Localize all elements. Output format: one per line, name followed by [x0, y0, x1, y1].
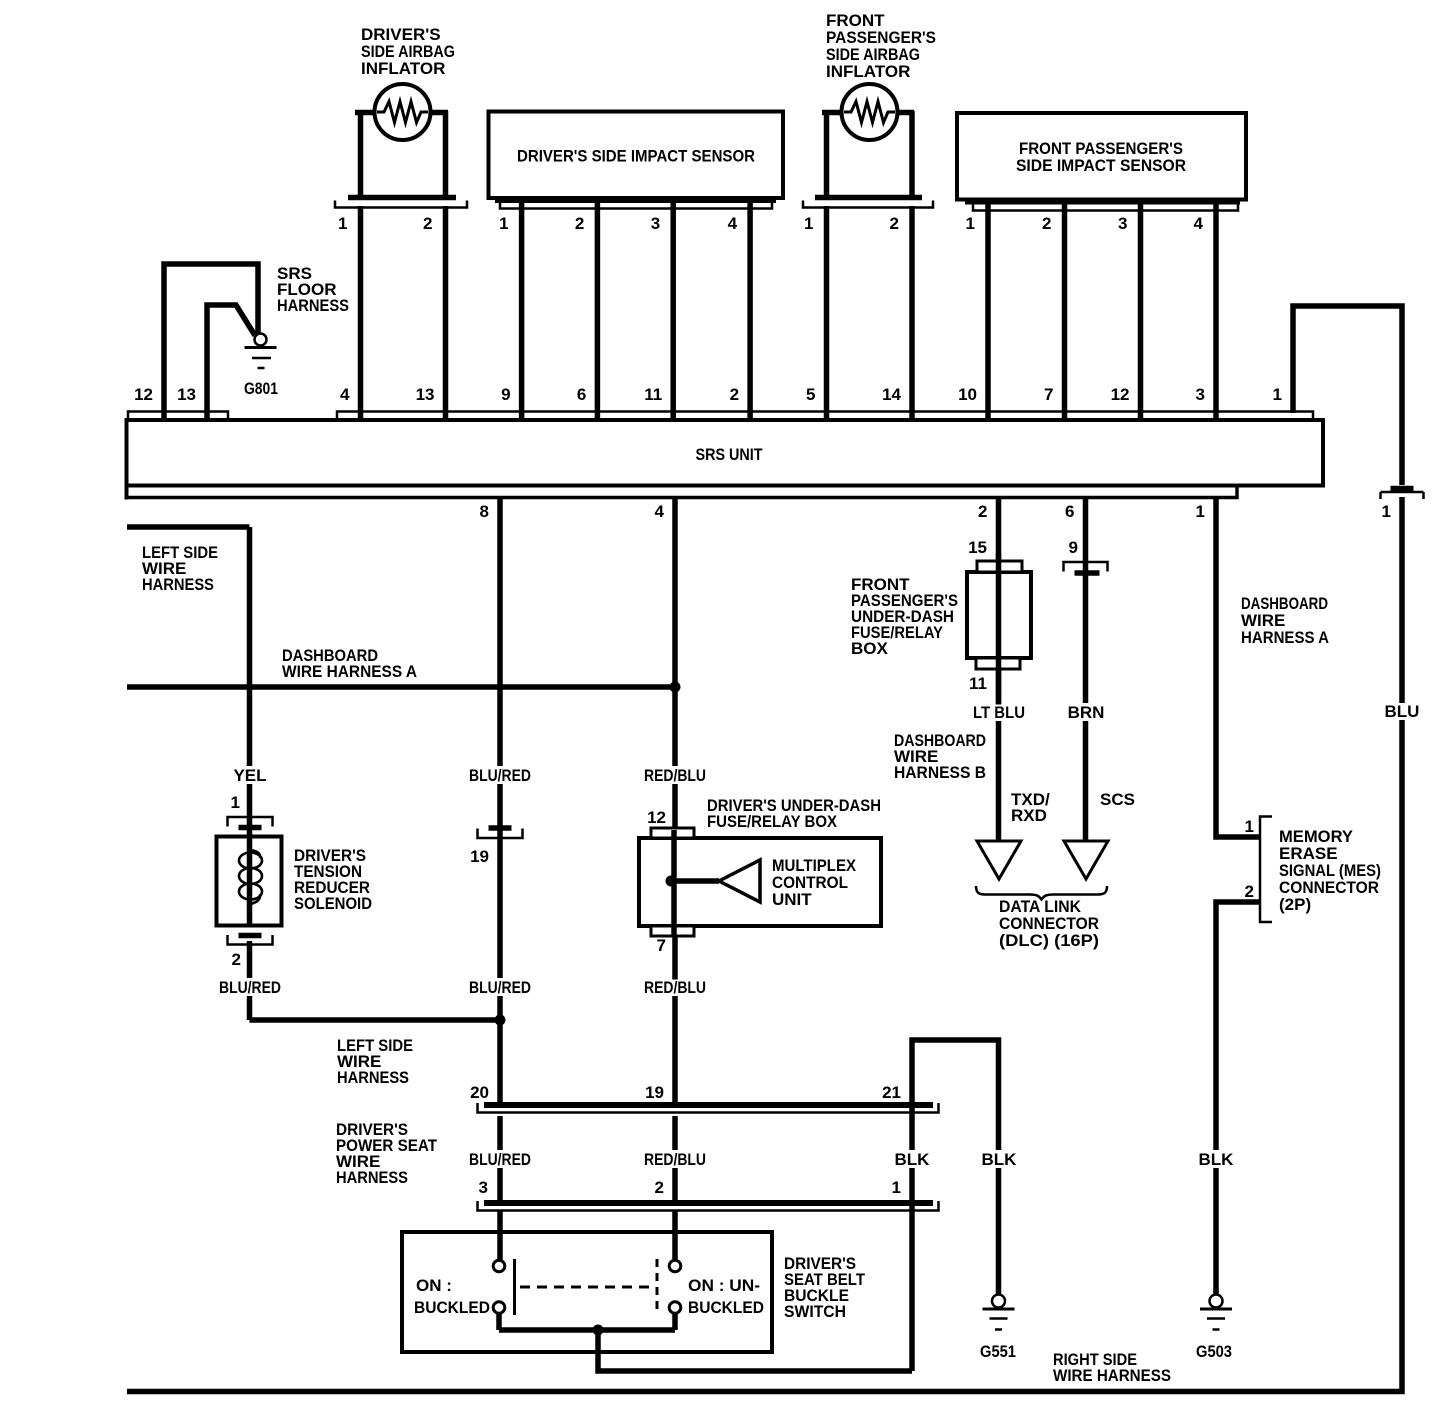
svg-text:2: 2 [730, 385, 739, 404]
svg-text:UNIT: UNIT [772, 890, 812, 909]
svg-text:2: 2 [423, 214, 432, 233]
svg-text:INFLATOR: INFLATOR [826, 62, 910, 81]
svg-text:6: 6 [1065, 502, 1074, 521]
svg-text:1: 1 [966, 214, 975, 233]
svg-text:BLK: BLK [1199, 1150, 1235, 1169]
svg-text:BUCKLED: BUCKLED [688, 1298, 764, 1317]
svg-text:FUSE/RELAY BOX: FUSE/RELAY BOX [707, 812, 838, 831]
svg-text:8: 8 [480, 502, 489, 521]
svg-text:BLU/RED: BLU/RED [469, 1150, 531, 1169]
svg-text:G503: G503 [1196, 1342, 1232, 1361]
svg-text:2: 2 [1245, 882, 1254, 901]
svg-text:2: 2 [890, 214, 899, 233]
svg-text:HARNESS: HARNESS [337, 1068, 409, 1087]
svg-text:BOX: BOX [851, 639, 889, 658]
svg-text:BLK: BLK [982, 1150, 1018, 1169]
svg-text:2: 2 [575, 214, 584, 233]
svg-text:21: 21 [882, 1083, 901, 1102]
svg-text:1: 1 [231, 793, 240, 812]
svg-text:G551: G551 [980, 1342, 1016, 1361]
svg-text:1: 1 [1273, 385, 1282, 404]
svg-text:RED/BLU: RED/BLU [644, 1150, 706, 1169]
svg-text:SCS: SCS [1100, 790, 1135, 809]
svg-text:1: 1 [1196, 502, 1205, 521]
svg-text:BRN: BRN [1068, 703, 1105, 722]
svg-text:20: 20 [470, 1083, 489, 1102]
svg-text:4: 4 [655, 502, 665, 521]
svg-text:9: 9 [1069, 538, 1078, 557]
svg-text:10: 10 [958, 385, 977, 404]
svg-text:WIRE HARNESS A: WIRE HARNESS A [282, 662, 417, 681]
svg-text:YEL: YEL [233, 766, 266, 785]
svg-text:BLU/RED: BLU/RED [469, 766, 531, 785]
svg-text:BUCKLED: BUCKLED [414, 1298, 490, 1317]
svg-text:1: 1 [1245, 817, 1254, 836]
svg-text:HARNESS: HARNESS [277, 296, 349, 315]
svg-text:1: 1 [804, 214, 813, 233]
svg-text:7: 7 [657, 936, 666, 955]
svg-text:11: 11 [969, 674, 987, 693]
svg-text:(DLC) (16P): (DLC) (16P) [999, 931, 1099, 950]
svg-text:DRIVER'S SIDE IMPACT SENSOR: DRIVER'S SIDE IMPACT SENSOR [517, 147, 755, 166]
svg-text:4: 4 [728, 214, 738, 233]
svg-text:WIRE HARNESS: WIRE HARNESS [1053, 1366, 1171, 1385]
svg-text:HARNESS: HARNESS [336, 1168, 408, 1187]
svg-text:19: 19 [470, 847, 489, 866]
svg-text:LT BLU: LT BLU [973, 703, 1025, 722]
svg-text:BLU: BLU [1385, 702, 1420, 721]
svg-text:1: 1 [499, 214, 508, 233]
svg-text:2: 2 [655, 1178, 664, 1197]
svg-text:SRS UNIT: SRS UNIT [696, 445, 764, 464]
svg-text:12: 12 [134, 385, 153, 404]
svg-text:HARNESS A: HARNESS A [1241, 628, 1329, 647]
svg-text:SIDE IMPACT SENSOR: SIDE IMPACT SENSOR [1016, 156, 1186, 175]
svg-text:1: 1 [892, 1178, 901, 1197]
svg-text:(2P): (2P) [1279, 895, 1311, 914]
svg-text:INFLATOR: INFLATOR [361, 59, 445, 78]
svg-text:13: 13 [416, 385, 435, 404]
svg-text:HARNESS B: HARNESS B [894, 763, 986, 782]
svg-text:11: 11 [644, 385, 662, 404]
svg-text:RED/BLU: RED/BLU [644, 766, 706, 785]
svg-text:12: 12 [1111, 385, 1130, 404]
svg-text:13: 13 [177, 385, 196, 404]
svg-text:RXD: RXD [1011, 806, 1047, 825]
svg-text:5: 5 [806, 385, 815, 404]
svg-text:ON : UN-: ON : UN- [688, 1276, 760, 1295]
svg-text:4: 4 [340, 385, 350, 404]
svg-text:15: 15 [968, 538, 987, 557]
svg-text:2: 2 [1042, 214, 1051, 233]
svg-text:6: 6 [577, 385, 586, 404]
svg-text:7: 7 [1044, 385, 1053, 404]
svg-text:BLU/RED: BLU/RED [469, 978, 531, 997]
svg-text:1: 1 [1382, 502, 1391, 521]
svg-text:3: 3 [479, 1178, 488, 1197]
svg-text:SOLENOID: SOLENOID [294, 894, 372, 913]
svg-text:BLK: BLK [895, 1150, 931, 1169]
svg-text:HARNESS: HARNESS [142, 575, 214, 594]
svg-text:3: 3 [1118, 214, 1127, 233]
svg-text:3: 3 [651, 214, 660, 233]
svg-text:3: 3 [1196, 385, 1205, 404]
svg-text:2: 2 [232, 950, 241, 969]
svg-text:SWITCH: SWITCH [784, 1302, 846, 1321]
svg-text:14: 14 [882, 385, 901, 404]
svg-text:4: 4 [1194, 214, 1204, 233]
svg-text:G801: G801 [244, 379, 278, 398]
svg-text:2: 2 [978, 502, 987, 521]
svg-text:9: 9 [501, 385, 510, 404]
svg-text:12: 12 [647, 808, 666, 827]
svg-text:1: 1 [338, 214, 347, 233]
svg-text:ON :: ON : [416, 1276, 452, 1295]
svg-text:BLU/RED: BLU/RED [219, 978, 281, 997]
svg-text:RED/BLU: RED/BLU [644, 978, 706, 997]
svg-text:19: 19 [645, 1083, 664, 1102]
